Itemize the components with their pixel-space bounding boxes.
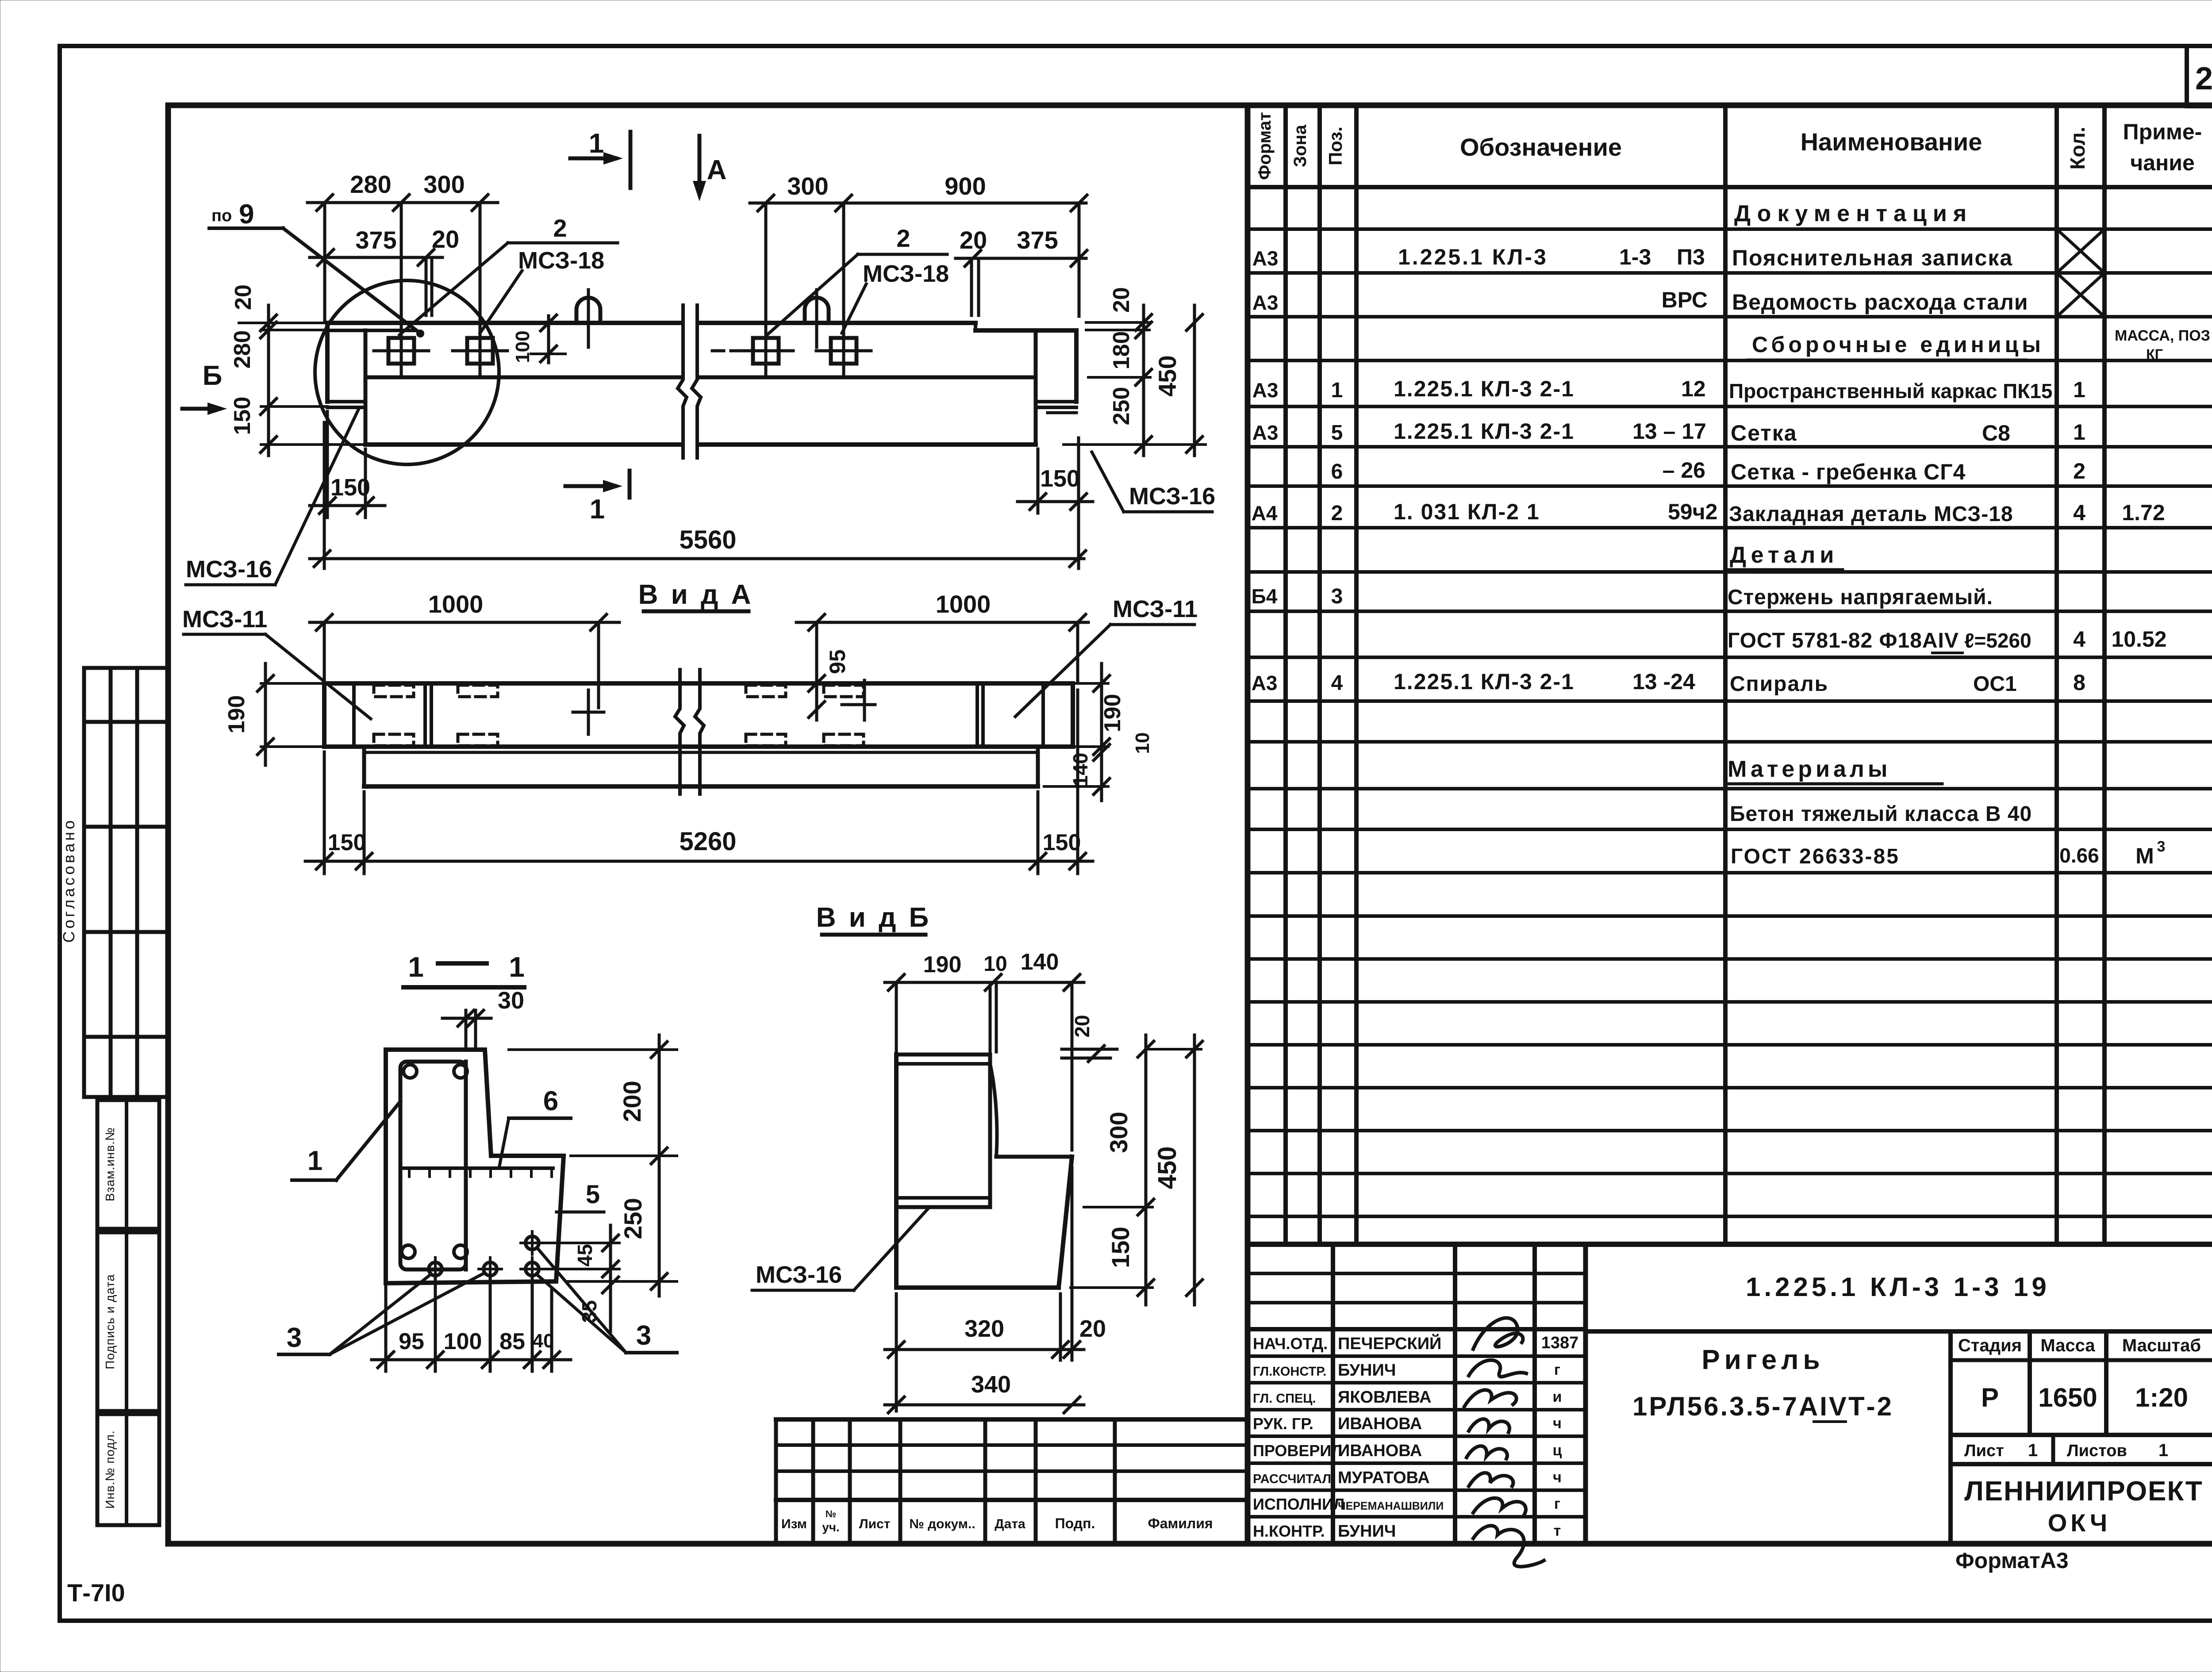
svg-text:№: №	[826, 1508, 837, 1519]
svg-text:900: 900	[945, 172, 986, 200]
svg-text:4: 4	[1331, 671, 1343, 695]
view A loop position crosses	[573, 680, 875, 734]
svg-text:ИВАНОВА: ИВАНОВА	[1338, 1415, 1422, 1433]
table row Poyasnitelnaya zapiska	[1252, 245, 2013, 270]
svg-text:МСЗ-16: МСЗ-16	[1129, 483, 1215, 510]
label 6 with leader	[499, 1086, 571, 1168]
svg-text:ГОСТ 26633-85: ГОСТ 26633-85	[1731, 845, 1900, 868]
svg-text:Поз.: Поз.	[1325, 127, 1346, 165]
svg-text:3: 3	[636, 1320, 651, 1351]
revision table bottom center	[776, 1419, 1248, 1544]
svg-text:Пояснительная записка: Пояснительная записка	[1732, 245, 2013, 270]
svg-text:10.52: 10.52	[2111, 627, 2166, 652]
svg-text:ч: ч	[1553, 1469, 1562, 1486]
svg-text:1.225.1 КЛ-3 2-1: 1.225.1 КЛ-3 2-1	[1394, 376, 1575, 401]
svg-text:1: 1	[408, 951, 424, 983]
section 1-1 rebar circles	[402, 1065, 467, 1258]
label 1 with leader	[292, 1101, 400, 1180]
svg-text:Зона: Зона	[1290, 124, 1310, 167]
table row Sborochnye edinicy	[1747, 327, 2210, 362]
svg-text:1000: 1000	[936, 590, 991, 618]
svg-text:1: 1	[1331, 379, 1343, 402]
view B dimensions 300 150 450	[1071, 1035, 1202, 1305]
view A dimension 190 left	[224, 663, 324, 765]
section 1-1 mesh line 6	[400, 1168, 553, 1177]
dimension 20 / 375 right	[956, 226, 1087, 315]
embedded plate MSZ-18 elevation right 1	[712, 204, 793, 376]
title block LENNIIPROEKT OKCh	[1964, 1476, 2203, 1537]
view A title	[638, 579, 754, 611]
svg-text:59ч2: 59ч2	[1668, 499, 1717, 524]
svg-text:В и д Б: В и д Б	[816, 902, 931, 933]
svg-text:450: 450	[1153, 1147, 1182, 1189]
svg-text:1: 1	[2028, 1441, 2038, 1460]
left vertical dimension chain 20 280 150	[230, 284, 365, 456]
svg-text:М: М	[2135, 844, 2154, 868]
svg-text:уч.: уч.	[822, 1520, 840, 1534]
svg-text:БУНИЧ: БУНИЧ	[1338, 1522, 1396, 1541]
svg-text:и: и	[1553, 1388, 1562, 1405]
svg-text:ЧЕРЕМАНАШВИЛИ: ЧЕРЕМАНАШВИЛИ	[1338, 1500, 1444, 1512]
svg-text:2: 2	[2073, 459, 2085, 483]
dimension 100 small	[512, 315, 565, 363]
svg-text:Дата: Дата	[995, 1517, 1025, 1531]
svg-text:Лист: Лист	[859, 1517, 891, 1531]
svg-text:1: 1	[590, 494, 605, 525]
svg-text:3: 3	[2157, 838, 2166, 855]
svg-text:МАССА, ПОЗ: МАССА, ПОЗ	[2115, 327, 2210, 344]
svg-text:МСЗ-11: МСЗ-11	[1113, 596, 1198, 622]
svg-text:Подп.: Подп.	[1055, 1515, 1095, 1531]
table row Detali	[1728, 542, 1843, 570]
svg-text:6: 6	[1331, 460, 1343, 483]
svg-text:5: 5	[1331, 421, 1343, 445]
svg-text:190: 190	[923, 952, 962, 978]
svg-text:13 – 17: 13 – 17	[1632, 419, 1706, 444]
svg-text:Лист: Лист	[1964, 1442, 2004, 1460]
svg-text:– 26: – 26	[1663, 458, 1705, 483]
svg-text:1. 031 КЛ-2 1: 1. 031 КЛ-2 1	[1394, 499, 1540, 524]
svg-text:ч: ч	[1553, 1415, 1562, 1432]
svg-text:П3: П3	[1677, 245, 1705, 269]
svg-text:БУНИЧ: БУНИЧ	[1338, 1361, 1396, 1380]
section mark 1 bottom	[565, 471, 630, 525]
svg-text:ГОСТ 5781-82 Ф18АIV: ГОСТ 5781-82 Ф18АIV	[1728, 629, 1959, 652]
svg-text:ПЕЧЕРСКИЙ: ПЕЧЕРСКИЙ	[1338, 1333, 1441, 1353]
svg-text:2: 2	[553, 214, 567, 242]
svg-text:12: 12	[1681, 376, 1706, 401]
label 2 MSZ-18 right with leaders	[767, 224, 949, 335]
svg-text:9: 9	[239, 199, 254, 230]
view arrow A top	[693, 136, 726, 201]
svg-text:Наименование: Наименование	[1801, 128, 1982, 156]
svg-text:РУК. ГР.: РУК. ГР.	[1253, 1415, 1313, 1433]
svg-text:г: г	[1554, 1361, 1560, 1378]
left margin box Podpis i data	[97, 1232, 159, 1411]
left margin table Soglasovano group	[84, 668, 167, 1097]
svg-text:300: 300	[787, 172, 828, 200]
dimensions 200 250 right	[509, 1035, 677, 1296]
svg-text:Р: Р	[1981, 1383, 1999, 1412]
svg-text:1650: 1650	[2038, 1383, 2097, 1412]
svg-text:№ докум..: № докум..	[909, 1517, 975, 1531]
embedded plate MSZ-16 right (notch)	[1036, 402, 1076, 413]
svg-text:5260: 5260	[679, 827, 736, 856]
svg-text:Пространственный каркас ПК15: Пространственный каркас ПК15	[1729, 380, 2053, 403]
svg-text:т: т	[1554, 1522, 1561, 1539]
view B right small dimension 20	[1062, 1015, 1117, 1062]
svg-text:Сборочные единицы: Сборочные единицы	[1752, 332, 2044, 357]
svg-text:А4: А4	[1252, 502, 1278, 525]
svg-text:Материалы: Материалы	[1728, 756, 1891, 782]
label 3 left with leaders	[279, 1273, 484, 1354]
svg-text:Стержень напрягаемый.: Стержень напрягаемый.	[1728, 586, 1993, 609]
svg-text:85: 85	[499, 1329, 525, 1354]
section 1-1 mark	[403, 951, 525, 987]
svg-text:Н.КОНТР.: Н.КОНТР.	[1253, 1522, 1325, 1540]
svg-text:250: 250	[1109, 387, 1134, 426]
svg-text:1: 1	[307, 1146, 323, 1176]
table row GOST 26633-85	[1731, 838, 2165, 868]
svg-text:Детали: Детали	[1730, 542, 1838, 568]
svg-text:Бетон тяжелый класса В 40: Бетон тяжелый класса В 40	[1730, 802, 2032, 826]
embedded plate MSZ-16 left (notch)	[327, 402, 365, 407]
specification table grid	[1248, 105, 2212, 1544]
svg-text:150: 150	[230, 397, 255, 435]
section 1-1 prestress bars with crosses	[424, 1231, 544, 1281]
svg-text:ИВАНОВА: ИВАНОВА	[1338, 1442, 1422, 1460]
svg-text:5560: 5560	[679, 525, 736, 554]
dimensions 45 35	[540, 1225, 619, 1331]
view A dimension 1000 left	[310, 590, 619, 708]
svg-text:1387: 1387	[1541, 1334, 1579, 1352]
svg-text:1: 1	[2158, 1441, 2168, 1460]
svg-text:150: 150	[1040, 465, 1080, 492]
view A bottom dimensions 150 5260 150	[305, 690, 1093, 874]
dimension 280 / 300 above beam left	[307, 170, 498, 322]
svg-text:5: 5	[586, 1180, 600, 1209]
section 1-1 outline	[386, 1050, 564, 1283]
embedded plate MSZ-18 elevation left 2	[453, 204, 507, 376]
view B top dimensions 190 10 140	[885, 949, 1084, 1150]
svg-text:6: 6	[543, 1086, 558, 1116]
svg-text:150: 150	[330, 474, 370, 501]
svg-text:1.225.1 КЛ-3: 1.225.1 КЛ-3	[1398, 245, 1548, 269]
svg-text:28: 28	[2195, 61, 2212, 96]
svg-text:1-3: 1-3	[1619, 245, 1651, 269]
svg-text:ОС1: ОС1	[1973, 672, 2017, 696]
label po 9 with leader	[209, 199, 424, 337]
svg-text:Масштаб: Масштаб	[2122, 1336, 2201, 1355]
label MSZ-11 left with leader	[182, 606, 371, 719]
svg-text:20: 20	[230, 284, 256, 310]
svg-text:375: 375	[1017, 226, 1058, 254]
svg-text:Подпись и дата: Подпись и дата	[103, 1274, 117, 1369]
title block designation 1.225.1 KL-3 1-3 19	[1746, 1272, 2050, 1302]
svg-text:Инв.№ подл.: Инв.№ подл.	[103, 1430, 117, 1509]
title block mark 1RL56.3.5-7AIVT-2	[1632, 1392, 1893, 1422]
view B outline	[896, 1055, 1072, 1288]
svg-text:280: 280	[230, 330, 255, 369]
crosses in Kol column	[2057, 229, 2104, 317]
view A dimensions 190 10 140 right	[1044, 663, 1153, 801]
svg-text:ВРС: ВРС	[1662, 288, 1708, 312]
label MSZ-11 right with leader	[1015, 596, 1198, 717]
svg-text:Б4: Б4	[1252, 585, 1278, 608]
title block date 1387 and marks	[1541, 1334, 1579, 1539]
page number box 28	[2187, 46, 2212, 106]
table row Materialy	[1725, 756, 1942, 784]
svg-text:А3: А3	[1252, 291, 1279, 314]
svg-text:Б: Б	[203, 360, 223, 391]
svg-text:Ведомость расхода стали: Ведомость расхода стали	[1732, 290, 2028, 314]
svg-text:1: 1	[2073, 420, 2085, 445]
svg-text:300: 300	[423, 170, 465, 198]
svg-text:чание: чание	[2130, 150, 2195, 175]
svg-text:180: 180	[1109, 331, 1134, 370]
view B bottom dimensions 320 20	[885, 1168, 1106, 1411]
svg-text:В и д А: В и д А	[638, 579, 754, 610]
dimension 5560 overall	[310, 422, 1086, 568]
vertical label Soglasovano	[60, 818, 78, 943]
svg-text:Масса: Масса	[2040, 1336, 2095, 1355]
title block List Listov	[1964, 1441, 2168, 1460]
table row Dokumentaciya	[1732, 201, 2000, 229]
svg-text:100: 100	[444, 1329, 482, 1354]
table row GOST 5781-82	[1728, 627, 2167, 653]
view A embedded plates MSZ-11 dashed	[374, 685, 864, 746]
svg-text:Формат: Формат	[1255, 112, 1275, 180]
svg-text:А3: А3	[1252, 247, 1279, 270]
dimension 150 bottom right	[1018, 438, 1093, 568]
embedded plate MSZ-18 elevation right 2	[816, 204, 871, 376]
table row Zakladnaya detal MSZ-18	[1252, 499, 2165, 526]
form code T-710	[67, 1579, 125, 1607]
view B bottom dimension 340	[885, 1371, 1084, 1413]
svg-text:Обозначение: Обозначение	[1460, 133, 1622, 161]
svg-text:ИСПОЛНИЛ: ИСПОЛНИЛ	[1253, 1495, 1344, 1513]
svg-text:10: 10	[983, 952, 1007, 976]
embedded plate MSZ-18 elevation left 1	[374, 204, 429, 376]
title block values P 1650 1:20	[1981, 1383, 2188, 1412]
svg-text:280: 280	[350, 170, 391, 198]
title block name Rigel	[1701, 1345, 1824, 1375]
svg-text:ГЛ. СПЕЦ.: ГЛ. СПЕЦ.	[1253, 1392, 1316, 1406]
svg-text:3: 3	[287, 1323, 302, 1353]
left margin box Inv.N podl.	[97, 1414, 159, 1525]
svg-text:ПРОВЕРИЛ: ПРОВЕРИЛ	[1253, 1442, 1343, 1460]
svg-text:95: 95	[399, 1329, 424, 1354]
label 2 MSZ-18 left with leaders	[399, 214, 618, 335]
svg-text:3: 3	[1331, 585, 1343, 608]
svg-text:Согласовано: Согласовано	[60, 818, 78, 943]
svg-text:95: 95	[825, 649, 850, 674]
view arrow B left	[182, 360, 227, 415]
table row Setka-grebenka	[1331, 458, 2085, 484]
svg-text:Сетка - гребенка СГ4: Сетка - гребенка СГ4	[1731, 460, 1966, 484]
svg-text:320: 320	[964, 1315, 1004, 1342]
svg-text:ОКЧ: ОКЧ	[2048, 1509, 2111, 1537]
label 3 right with leaders	[536, 1248, 677, 1353]
svg-text:ФорматА3: ФорматА3	[1955, 1548, 2069, 1573]
svg-text:МУРАТОВА: МУРАТОВА	[1338, 1469, 1430, 1487]
svg-text:20: 20	[1109, 287, 1134, 313]
svg-text:Фамилия: Фамилия	[1148, 1515, 1213, 1531]
svg-text:4: 4	[2073, 627, 2085, 652]
svg-text:МСЗ-16: МСЗ-16	[756, 1262, 842, 1288]
lifting loop left	[576, 290, 600, 347]
title block grid	[1248, 1244, 2212, 1544]
svg-text:МСЗ-18: МСЗ-18	[518, 247, 604, 274]
svg-text:200: 200	[618, 1081, 646, 1122]
svg-text:13 -24: 13 -24	[1632, 669, 1695, 694]
svg-text:1.72: 1.72	[2122, 500, 2165, 525]
svg-text:по: по	[211, 207, 232, 225]
svg-text:300: 300	[1105, 1112, 1133, 1153]
svg-text:МСЗ-16: МСЗ-16	[186, 556, 272, 583]
inner drawing frame	[168, 105, 2212, 1544]
svg-text:Т-7I0: Т-7I0	[67, 1579, 125, 1607]
beam elevation outline	[327, 323, 1076, 445]
svg-text:Листов: Листов	[2067, 1442, 2127, 1460]
label Format A3 below title block	[1955, 1548, 2069, 1573]
svg-text:С8: С8	[1982, 421, 2010, 445]
view B label MSZ-16 with leader	[752, 1207, 929, 1290]
svg-text:140: 140	[1069, 753, 1092, 787]
section 1-1 reinforcement cage	[400, 1062, 466, 1269]
svg-text:МСЗ-18: МСЗ-18	[863, 261, 949, 287]
svg-text:190: 190	[224, 695, 250, 734]
view A dimension 95	[809, 625, 850, 720]
dimension 150 bottom left	[310, 411, 385, 518]
view A break lines	[675, 670, 704, 794]
title block signature rows labels	[1253, 1333, 1444, 1541]
revision table labels	[781, 1508, 1213, 1534]
dimension 30 top	[442, 987, 524, 1048]
right vertical dimension chain 20 180 250 450	[1064, 287, 1206, 456]
label MSZ-16 left with leader	[186, 408, 359, 585]
view A beam outline	[324, 683, 1073, 786]
label MSZ-16 right with leader	[1092, 452, 1215, 512]
svg-text:ГЛ.КОНСТР.: ГЛ.КОНСТР.	[1253, 1365, 1326, 1379]
specification table header labels	[1255, 112, 2202, 180]
svg-text:Изм: Изм	[781, 1517, 807, 1531]
svg-text:40: 40	[533, 1330, 554, 1352]
svg-text:г: г	[1554, 1496, 1560, 1512]
svg-text:0.66: 0.66	[2059, 844, 2099, 867]
svg-text:КГ: КГ	[2146, 346, 2163, 362]
view A dimension 1000 right	[796, 590, 1088, 694]
svg-text:100: 100	[512, 330, 534, 363]
svg-text:190: 190	[1100, 694, 1125, 732]
dimension 375 / 20 below it left	[310, 225, 459, 315]
svg-text:1.225.1 КЛ-3 2-1: 1.225.1 КЛ-3 2-1	[1394, 419, 1575, 444]
svg-text:20: 20	[1071, 1015, 1094, 1037]
svg-text:А3: А3	[1252, 379, 1279, 402]
svg-text:1.225.1 КЛ-3 1-3 19: 1.225.1 КЛ-3 1-3 19	[1746, 1272, 2050, 1302]
lifting loop right	[805, 290, 829, 347]
svg-text:1.225.1 КЛ-3 2-1: 1.225.1 КЛ-3 2-1	[1394, 669, 1575, 694]
svg-text:Приме-: Приме-	[2123, 119, 2202, 144]
svg-text:А3: А3	[1252, 421, 1279, 444]
svg-text:1:20: 1:20	[2135, 1383, 2188, 1412]
table row Vedomost rashoda stali	[1252, 288, 2028, 314]
svg-text:10: 10	[1132, 732, 1153, 754]
svg-text:4: 4	[2073, 500, 2085, 525]
svg-text:1: 1	[2073, 377, 2085, 402]
svg-text:Ригель: Ригель	[1701, 1345, 1824, 1375]
left margin box Vzam.inv.N	[97, 1100, 159, 1229]
table row Spiral OC1	[1252, 669, 2085, 696]
svg-text:2: 2	[896, 224, 910, 252]
svg-text:8: 8	[2073, 670, 2085, 695]
break lines in elevation	[678, 305, 701, 458]
svg-text:МСЗ-11: МСЗ-11	[182, 606, 267, 633]
svg-text:Кол.: Кол.	[2066, 127, 2089, 169]
svg-text:250: 250	[619, 1198, 647, 1239]
svg-text:20: 20	[432, 225, 459, 253]
bottom chain 95 100 85 40	[372, 1278, 571, 1371]
svg-text:Спираль: Спираль	[1730, 672, 1828, 696]
table row Sterzhen napryagaemyj	[1252, 585, 1993, 609]
svg-text:Взам.инв.№: Взам.инв.№	[103, 1127, 117, 1201]
svg-text:1РЛ56.3.5-7АIVТ-2: 1РЛ56.3.5-7АIVТ-2	[1632, 1392, 1893, 1421]
svg-text:ц: ц	[1553, 1442, 1562, 1459]
svg-text:20: 20	[1079, 1315, 1106, 1342]
dimension 300 / 900 above beam right	[750, 172, 1087, 316]
svg-text:Закладная деталь МСЗ-18: Закладная деталь МСЗ-18	[1729, 502, 2013, 526]
svg-text:150: 150	[1043, 830, 1081, 855]
svg-text:375: 375	[355, 226, 396, 254]
svg-text:45: 45	[573, 1244, 596, 1266]
svg-text:НАЧ.ОТД.: НАЧ.ОТД.	[1253, 1335, 1328, 1353]
svg-text:30: 30	[498, 987, 524, 1014]
svg-text:150: 150	[328, 830, 366, 855]
svg-text:1: 1	[589, 128, 604, 159]
svg-text:А: А	[707, 155, 727, 185]
title block Stadiya Massa Masshtab	[1958, 1336, 2201, 1355]
svg-text:140: 140	[1021, 949, 1059, 975]
table row Beton tyazhelyj	[1730, 802, 2032, 826]
svg-text:ЛЕННИИПРОЕКТ: ЛЕННИИПРОЕКТ	[1964, 1476, 2203, 1507]
svg-text:ЯКОВЛЕВА: ЯКОВЛЕВА	[1338, 1388, 1432, 1407]
svg-text:340: 340	[971, 1371, 1011, 1398]
svg-text:150: 150	[1106, 1227, 1134, 1268]
label 5 with leader	[557, 1180, 604, 1212]
svg-text:2: 2	[1331, 502, 1343, 525]
svg-text:Документация: Документация	[1734, 201, 1973, 226]
detail circle node 9	[315, 280, 499, 464]
svg-text:А3: А3	[1252, 671, 1278, 694]
view B title	[816, 902, 931, 935]
svg-text:1: 1	[509, 951, 525, 983]
table row Prostranstvennyj karkas	[1252, 376, 2085, 403]
svg-text:20: 20	[960, 226, 987, 254]
svg-text:450: 450	[1153, 355, 1181, 396]
svg-text:Стадия: Стадия	[1958, 1336, 2022, 1355]
table row Setka C8	[1252, 419, 2085, 445]
svg-text:Сетка: Сетка	[1731, 421, 1797, 445]
section mark 1 top	[570, 128, 630, 188]
title block signatures (handwritten squiggles)	[1464, 1318, 1544, 1567]
svg-text:РАССЧИТАЛ: РАССЧИТАЛ	[1253, 1472, 1331, 1486]
svg-text:1000: 1000	[428, 590, 484, 618]
svg-text:ℓ=5260: ℓ=5260	[1964, 629, 2032, 652]
